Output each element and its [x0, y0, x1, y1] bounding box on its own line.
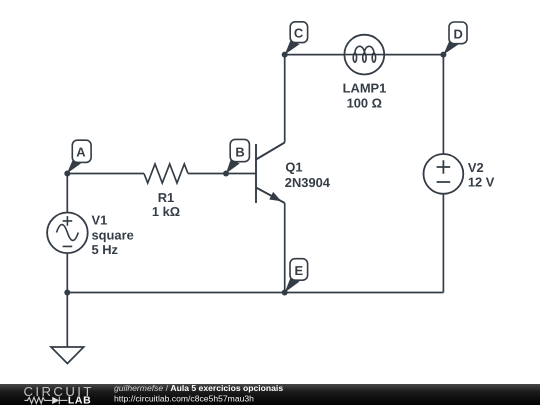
- leader C: [285, 41, 300, 55]
- wire D down to V2: [442, 55, 444, 154]
- wire V1 to bottom rail: [66, 253, 68, 292]
- node E dot: [282, 290, 288, 296]
- svg-text:http://circuitlab.com/c8ce5h57: http://circuitlab.com/c8ce5h57mau3h: [114, 393, 254, 403]
- footer bar: [0, 384, 540, 405]
- wire lamp to D: [384, 54, 443, 56]
- voltage source V1: [47, 213, 88, 254]
- wire collector up to C: [284, 55, 286, 143]
- wire A down to V1: [66, 174, 68, 213]
- svg-text:guilhermefse / Aula 5 exercici: guilhermefse / Aula 5 exercicios opciona…: [114, 383, 283, 393]
- node D dot: [440, 52, 446, 58]
- node C dot: [282, 52, 288, 58]
- wire A to R1: [67, 173, 144, 175]
- wire emitter down to E: [284, 203, 286, 293]
- lamp LAMP1: [344, 35, 384, 75]
- logo mini schematic: [25, 397, 68, 405]
- transistor Q1: [256, 143, 285, 204]
- resistor R1: [144, 164, 188, 183]
- node B flag: [230, 139, 249, 161]
- bottom rail wire: [67, 292, 443, 294]
- leader A: [67, 161, 81, 174]
- node B dot: [223, 171, 229, 177]
- node E flag: [290, 259, 308, 281]
- wire V2 to bottom rail: [442, 194, 444, 293]
- ground junction dot: [64, 290, 70, 296]
- leader B: [226, 160, 240, 173]
- wire C to lamp: [285, 54, 345, 56]
- voltage source V2: [424, 154, 464, 194]
- leader D: [443, 41, 458, 54]
- leader E: [285, 279, 300, 293]
- node A flag: [72, 140, 91, 162]
- node D flag: [449, 22, 467, 44]
- ground wire stub: [66, 293, 68, 348]
- svg-text:LAB: LAB: [68, 395, 91, 405]
- ground: [51, 347, 84, 364]
- node C flag: [290, 22, 307, 43]
- node A dot: [64, 171, 70, 177]
- transistor Q1 emitter arrow: [269, 192, 281, 201]
- wire R1 to Q1 base: [188, 173, 256, 175]
